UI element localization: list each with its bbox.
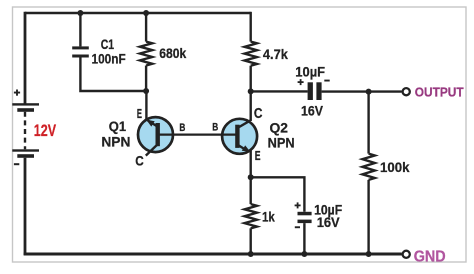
svg-text:B: B <box>212 121 218 133</box>
wire 4.7k top <box>249 12 251 42</box>
node C1/680k junction <box>143 88 149 94</box>
svg-text:C: C <box>135 153 144 168</box>
wire node to Q1 emitter <box>145 91 147 120</box>
transistor Q2 <box>222 119 257 154</box>
node emitter junction <box>248 174 254 180</box>
resistor R1 680k <box>140 42 152 66</box>
svg-text:E: E <box>255 148 261 163</box>
wire emitter node to C3 <box>251 177 305 212</box>
svg-text:1k: 1k <box>262 208 275 224</box>
wire 100k bottom <box>367 180 369 254</box>
wire top rail <box>25 12 251 14</box>
wire base Q1-Q2 <box>158 134 237 136</box>
node 100k bottom junction <box>366 251 372 257</box>
resistor R2 4.7k <box>245 42 257 66</box>
terminal OUTPUT <box>403 88 410 95</box>
node 100k top junction <box>366 89 372 95</box>
wire left rail to battery <box>24 12 27 104</box>
wire Q2 emitter down <box>249 151 251 178</box>
svg-text:16V: 16V <box>317 214 341 230</box>
node 680k top junction <box>143 10 149 16</box>
capacitor C3 10uF <box>298 212 312 223</box>
svg-text:E: E <box>137 106 142 121</box>
battery plus sign <box>14 90 20 96</box>
svg-text:NPN: NPN <box>268 135 295 151</box>
wire C1 top <box>79 13 81 46</box>
wire 100k top <box>367 92 369 154</box>
svg-text:16V: 16V <box>301 103 324 119</box>
svg-text:100k: 100k <box>380 159 410 175</box>
node C1 top junction <box>77 10 83 16</box>
wire node to Q2 collector <box>249 91 251 121</box>
wire 680k bottom to node <box>145 66 147 92</box>
wire battery to bottom rail <box>24 158 27 255</box>
svg-text:680k: 680k <box>159 45 186 61</box>
svg-text:Q1: Q1 <box>109 118 127 134</box>
wire 1k bottom <box>249 228 251 254</box>
svg-text:12V: 12V <box>34 122 56 140</box>
wire C1 bottom <box>80 58 146 92</box>
wire 680k top <box>145 13 147 42</box>
node 1k bottom junction <box>248 251 254 257</box>
capacitor C2 10uF <box>308 82 322 100</box>
C2 plus sign <box>298 79 304 85</box>
capacitor C1 <box>72 46 89 57</box>
svg-text:C: C <box>254 106 263 122</box>
resistor R3 1k <box>245 204 257 228</box>
svg-text:OUTPUT: OUTPUT <box>415 85 464 99</box>
C3 plus sign <box>295 202 301 208</box>
battery B1 12V <box>12 103 39 158</box>
C2 minus sign <box>324 80 329 82</box>
wire 4.7k bottom to node <box>249 66 251 92</box>
wire C3 bottom <box>303 223 305 254</box>
transistor Q1 <box>138 117 173 156</box>
wire emitter node to 1k <box>249 177 251 204</box>
svg-text:NPN: NPN <box>101 134 130 150</box>
svg-text:10µF: 10µF <box>295 64 325 80</box>
svg-text:Q2: Q2 <box>270 119 289 135</box>
node Q2 collector junction <box>248 88 254 94</box>
C3 minus sign <box>295 226 300 228</box>
battery minus sign <box>14 163 19 165</box>
svg-text:4.7k: 4.7k <box>263 46 288 62</box>
resistor R4 100k <box>362 154 374 180</box>
svg-text:B: B <box>179 122 185 134</box>
svg-text:100nF: 100nF <box>92 51 127 67</box>
wire C2 to output terminal <box>322 90 402 92</box>
wire bottom rail <box>24 253 402 256</box>
wire node to C2 plus plate <box>251 90 308 92</box>
svg-text:GND: GND <box>414 249 446 266</box>
node C3 bottom junction <box>301 251 307 257</box>
terminal GND <box>403 251 410 258</box>
